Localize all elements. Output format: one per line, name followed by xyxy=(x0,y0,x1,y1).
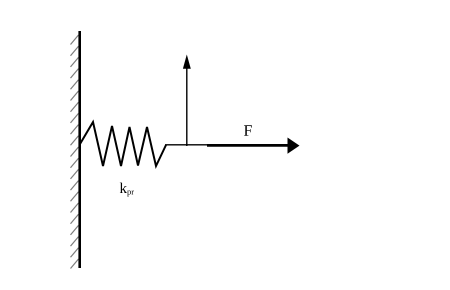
wall xyxy=(78,31,81,268)
force arrow F shaft xyxy=(207,144,289,147)
spring k_pr xyxy=(80,122,166,166)
force arrow F head xyxy=(288,138,300,154)
displacement arrow shaft xyxy=(186,61,188,146)
svg-text:F: F xyxy=(243,123,252,140)
wall hatching xyxy=(71,35,79,269)
wire from spring to force node xyxy=(165,144,207,146)
displacement arrow head xyxy=(183,55,191,69)
svg-text:kpr: kpr xyxy=(119,181,134,197)
